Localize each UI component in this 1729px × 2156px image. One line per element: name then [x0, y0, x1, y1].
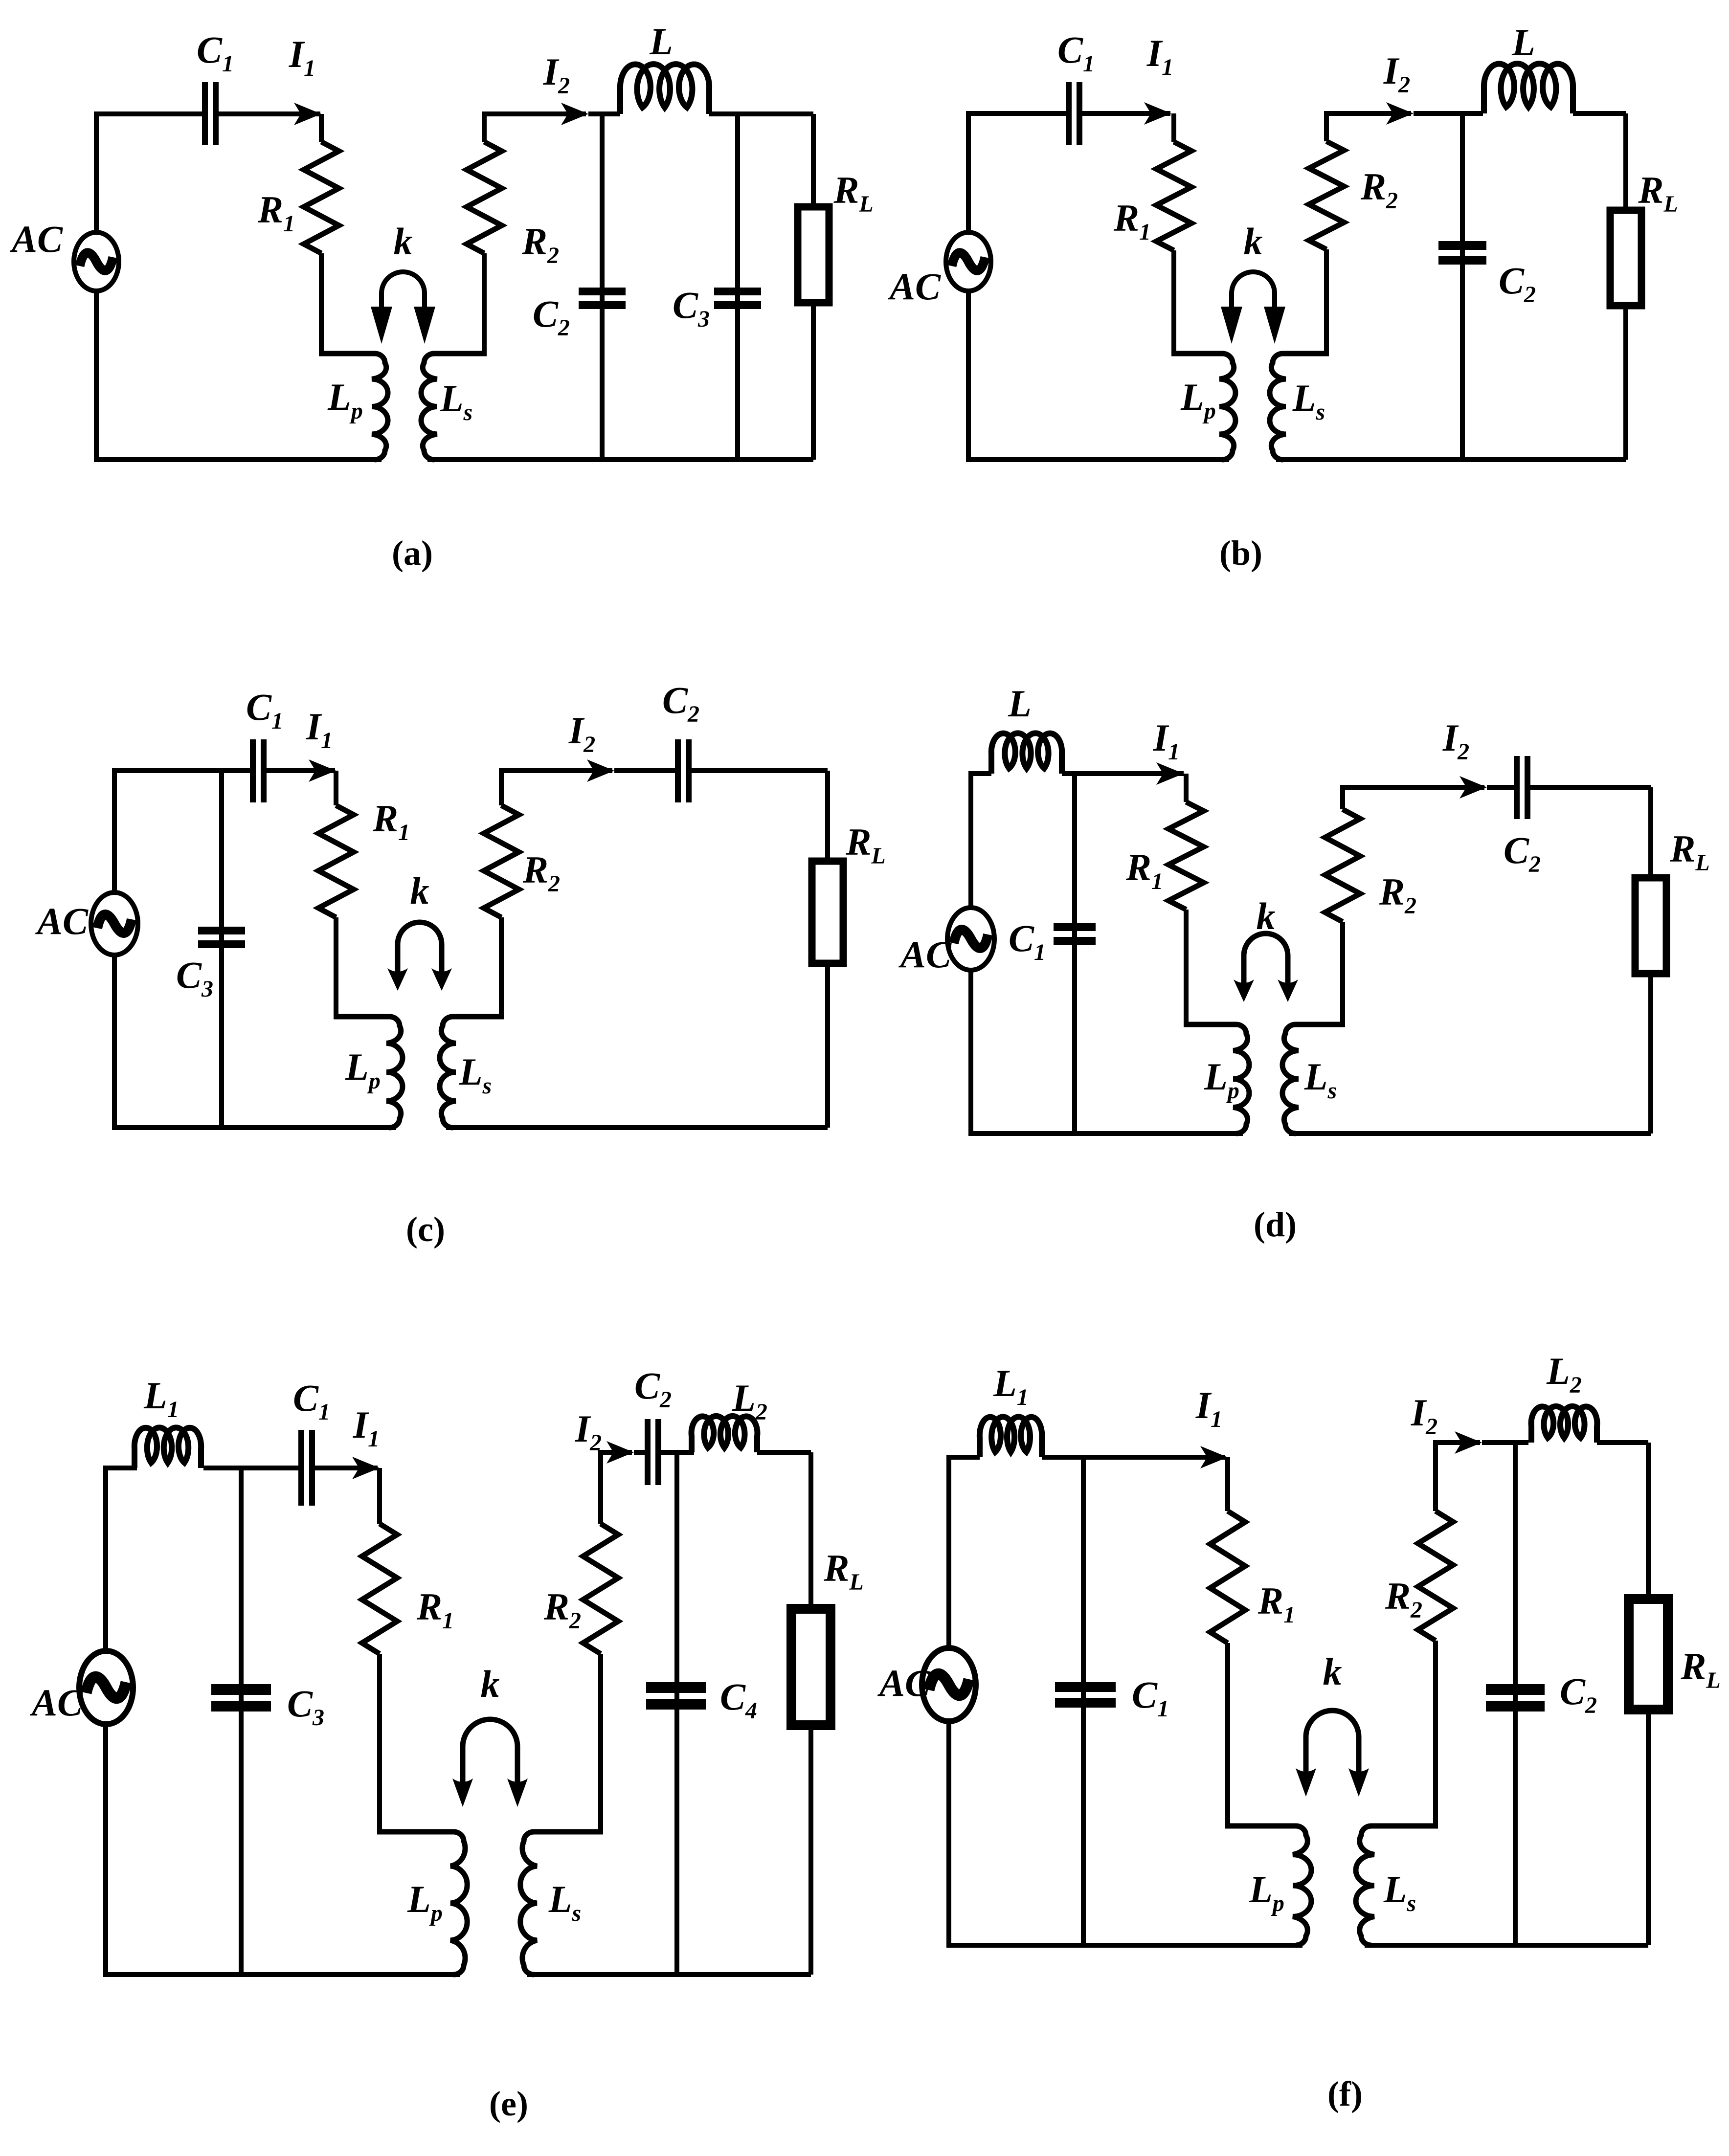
primary coil Lp (panel e) — [377, 1832, 467, 1975]
resistor R2 (panel b) — [1309, 141, 1344, 249]
svg-text:k: k — [1257, 895, 1276, 937]
inductor L2 (panel f) — [1531, 1406, 1597, 1443]
AC source (panel a) — [74, 232, 119, 291]
current arrow I1 (panel c) — [309, 759, 336, 782]
wire: corner to R1 (panel f) — [1225, 1457, 1230, 1511]
coupling k arc with arrows (panel a) — [371, 272, 435, 344]
current arrow I2 (panel b) — [1386, 102, 1414, 125]
capacitor C1 (panel b) — [1066, 82, 1082, 145]
wire: C1 branch (panel f) — [1081, 1457, 1086, 1945]
resistor R1 (panel a) — [304, 142, 339, 253]
wire: right edge to RL (panel f) — [1646, 1443, 1651, 1602]
wire: R1 to Lp (panel c) — [334, 917, 338, 1017]
wire: L2 to top-right corner (panel e) — [757, 1450, 811, 1455]
wire: Ls bottom to bottom-right (panel a) — [427, 457, 813, 462]
inductor L (panel d) — [991, 733, 1062, 774]
wire: R2 top to I2 arrow (panel a) — [484, 114, 586, 142]
inductor L1 (panel f) — [980, 1417, 1042, 1457]
wire: C3 branch (panel c) — [219, 771, 224, 1128]
wire: Ls top to R2 (panel e) — [598, 1654, 603, 1832]
wire: C3 branch (panel a) — [735, 114, 740, 460]
wire: C1 to I1 arrow (panel b) — [1082, 111, 1170, 116]
wire: I2 arrow to L2 (panel f) — [1482, 1440, 1528, 1445]
wire: panel b, left branch AC to top — [968, 113, 1066, 232]
primary coil Lp (panel a) — [319, 354, 388, 460]
wire: panel c, left branch AC to top — [114, 771, 250, 895]
wire: C1 to I1 arrow (panel e) — [315, 1466, 378, 1470]
capacitor C1 (panel c) — [250, 739, 267, 802]
wire: R1 to Lp top wire (panel a) — [319, 253, 324, 354]
wire: R1 to Lp (panel f) — [1225, 1643, 1230, 1826]
svg-text:AC: AC — [29, 1681, 83, 1724]
load resistor RL (panel f) — [1629, 1599, 1668, 1710]
wire: L coil to top-right corner (panel a) — [709, 111, 813, 116]
wire: L coil to top-right corner (panel b) — [1573, 111, 1626, 116]
wire: arrow corner down to R1 (panel a) — [319, 114, 324, 142]
AC source (panel b) — [946, 232, 991, 291]
current arrow I1 (panel b) — [1144, 102, 1171, 125]
AC source (panel e) — [79, 1651, 133, 1724]
wire: corner down to R1 (panel b) — [1171, 113, 1176, 142]
wire: Ls top to R2 (panel b) — [1324, 249, 1329, 354]
svg-text:k: k — [410, 869, 429, 912]
wire: panel a, left branch from AC to top — [96, 114, 202, 232]
secondary coil Ls (panel e) — [520, 1832, 603, 1975]
wire: RL to bottom-right (panel d) — [1648, 970, 1653, 1134]
wire: C2 branch (panel a) — [600, 114, 605, 460]
wire: panel d, AC bottom to bottom-left — [971, 967, 1243, 1134]
capacitor C3 (panel a) — [714, 288, 761, 309]
svg-text:(a): (a) — [392, 533, 433, 573]
wire: R2 to I2 wire (panel c) — [501, 771, 612, 805]
wire: corner to R1 (panel d) — [1184, 774, 1189, 802]
wire: I2 arrow to L coil (panel a) — [588, 111, 620, 116]
wire: panel e, AC bottom to bottom-left — [106, 1723, 460, 1975]
wire: panel f, AC bottom to bottom-left — [949, 1720, 1302, 1945]
coupling k arc with arrows (panel b) — [1221, 272, 1285, 344]
secondary coil Ls (panel b) — [1270, 354, 1329, 460]
current arrow I1 (panel f) — [1200, 1446, 1228, 1468]
svg-text:k: k — [481, 1663, 500, 1705]
wire: right edge to RL (panel c) — [825, 771, 830, 865]
wire: RL to bottom-right corner (panel a) — [811, 299, 816, 460]
wire: RL to bottom-right (panel f) — [1646, 1705, 1651, 1945]
svg-text:AC: AC — [887, 265, 941, 308]
svg-text:k: k — [1323, 1650, 1342, 1693]
capacitor C2 (panel e) — [645, 1419, 661, 1485]
capacitor C2 (panel a) — [579, 288, 626, 309]
capacitor C3 (panel c) — [198, 927, 245, 948]
resistor R2 (panel d) — [1325, 809, 1360, 922]
svg-text:(c): (c) — [406, 1210, 445, 1249]
primary coil Lp (panel d) — [1184, 1024, 1249, 1134]
wire: I2 arrow to C2 (panel c) — [614, 768, 675, 773]
inductor L (panel a) — [620, 64, 709, 114]
resistor R2 (panel f) — [1418, 1511, 1453, 1641]
wire: panel c, AC bottom to bottom-left — [114, 951, 396, 1128]
inductor L2 (panel e) — [692, 1416, 758, 1452]
svg-text:(d): (d) — [1254, 1205, 1297, 1244]
svg-text:L: L — [1008, 682, 1032, 725]
wire: R2 to I2 wire (panel d) — [1343, 787, 1484, 809]
wire: C2 to L2 (panel e) — [661, 1450, 694, 1455]
wire: right edge to RL (panel e) — [808, 1452, 813, 1612]
wire: Ls top to R2 (panel d) — [1340, 922, 1345, 1024]
wire: Ls bottom to bottom-right (panel d) — [1289, 1131, 1651, 1136]
secondary coil Ls (panel a) — [421, 354, 487, 460]
load resistor RL (panel b) — [1610, 210, 1641, 306]
resistor R1 (panel c) — [318, 805, 354, 917]
wire: R2 to I2 wire (panel e) — [601, 1452, 632, 1524]
current arrow I1 (panel a) — [294, 103, 321, 125]
svg-text:AC: AC — [898, 933, 952, 976]
svg-text:L: L — [1511, 21, 1535, 64]
wire: right edge to RL (panel d) — [1648, 787, 1653, 881]
current arrow I2 (panel c) — [587, 759, 614, 782]
capacitor C4 (panel e) — [646, 1682, 706, 1710]
load resistor RL (panel e) — [791, 1609, 831, 1725]
wire: R2 to I2 wire (panel f) — [1436, 1443, 1480, 1511]
secondary coil Ls (panel c) — [440, 1017, 504, 1128]
capacitor C2 (panel d) — [1514, 756, 1530, 819]
load resistor RL (panel c) — [812, 861, 843, 963]
capacitor C1 (panel a) — [202, 82, 219, 145]
resistor R1 (panel b) — [1156, 142, 1191, 250]
load resistor RL (panel a) — [798, 207, 829, 303]
secondary coil Ls (panel f) — [1356, 1826, 1438, 1945]
resistor R1 (panel d) — [1168, 802, 1204, 910]
inductor L (panel b) — [1484, 64, 1573, 113]
current arrow I2 (panel a) — [561, 103, 588, 125]
capacitor C3 (panel e) — [211, 1684, 271, 1711]
wire: corner to R1 (panel e) — [377, 1468, 382, 1524]
wire: panel a, AC bottom to bottom-left corner — [96, 291, 382, 460]
wire: Ls top to R2 (panel f) — [1433, 1641, 1438, 1826]
wire: I2 arrow to C2 node (panel b) — [1414, 111, 1483, 116]
wire: I2 arrow to C2 (panel d) — [1487, 785, 1514, 790]
capacitor C2 (panel f) — [1486, 1684, 1545, 1711]
wire: Ls bottom to bottom-right (panel c) — [446, 1125, 828, 1130]
resistor R2 (panel a) — [467, 142, 502, 253]
resistor R1 (panel f) — [1210, 1511, 1245, 1643]
wire: panel b, AC bottom to bottom-left — [968, 291, 1229, 460]
resistor R1 (panel e) — [362, 1524, 397, 1654]
current arrow I2 (panel f) — [1455, 1431, 1482, 1454]
primary coil Lp (panel f) — [1225, 1826, 1311, 1945]
coupling k arc with arrows (panel e) — [452, 1719, 528, 1807]
capacitor C2 (panel b) — [1438, 241, 1486, 265]
wire: panel e, left branch AC to top — [106, 1468, 137, 1653]
wire: Ls top to R2 (panel a) — [482, 253, 487, 354]
secondary coil Ls (panel d) — [1282, 1024, 1345, 1134]
primary coil Lp (panel b) — [1171, 354, 1235, 460]
wire: L1 to C1 node (panel f) — [1042, 1455, 1225, 1460]
wire: RL to bottom-right (panel b) — [1623, 302, 1628, 460]
wire: panel d, left branch AC to top — [971, 774, 991, 911]
current arrow I1 (panel e) — [352, 1457, 380, 1479]
AC source (panel d) — [947, 908, 994, 970]
svg-text:(f): (f) — [1327, 2074, 1363, 2113]
wire: C2 to top-right corner (panel c) — [692, 768, 828, 773]
inductor L1 (panel e) — [135, 1427, 201, 1468]
wire: Ls bottom to bottom-right (panel f) — [1365, 1943, 1648, 1948]
svg-text:(b): (b) — [1219, 533, 1262, 573]
wire: I2 arrow to C2 (panel e) — [634, 1450, 645, 1455]
capacitor C1 (panel e) — [298, 1430, 315, 1506]
wire: right edge to RL (panel b) — [1623, 113, 1628, 214]
svg-text:L: L — [649, 20, 673, 63]
resistor R2 (panel e) — [583, 1524, 618, 1654]
wire: R1 to Lp (panel d) — [1184, 910, 1189, 1024]
coupling k arc with arrows (panel d) — [1234, 934, 1298, 1002]
resistor R2 (panel c) — [484, 805, 519, 917]
svg-text:k: k — [394, 220, 413, 263]
AC source (panel c) — [91, 892, 138, 955]
wire: C3 branch (panel e) — [239, 1468, 244, 1975]
svg-text:AC: AC — [877, 1662, 931, 1704]
coupling k arc with arrows (panel f) — [1296, 1711, 1369, 1797]
wire: R1 to Lp (panel e) — [377, 1654, 382, 1832]
load resistor RL (panel d) — [1635, 878, 1666, 974]
capacitor C1 (panel f) — [1055, 1682, 1116, 1708]
current arrow I2 (panel d) — [1460, 776, 1487, 799]
wire: Ls bottom to bottom-right (panel b) — [1276, 457, 1626, 462]
wire: C2 branch (panel f) — [1513, 1443, 1518, 1945]
capacitor C1 (panel d) — [1054, 923, 1096, 945]
wire: L1 to C3 node (panel e) — [203, 1466, 298, 1470]
wire: C4 branch (panel e) — [674, 1452, 679, 1975]
wire: panel f, left branch AC to top — [949, 1457, 980, 1649]
svg-text:k: k — [1244, 220, 1263, 263]
wire: C1 to I1 arrow (panel c) — [267, 768, 335, 773]
wire: R2 to I2 arrow (panel b) — [1326, 113, 1411, 141]
wire: Ls top to R2 (panel c) — [499, 917, 504, 1017]
wire: RL to bottom-right (panel e) — [808, 1721, 813, 1975]
coupling k arc with arrows (panel c) — [387, 922, 452, 991]
current arrow I2 (panel e) — [606, 1441, 634, 1464]
wire: R1 to Lp (panel b) — [1171, 250, 1176, 354]
wire: C1 to R1 with I1 arrow (panel a) — [219, 111, 320, 116]
primary coil Lp (panel c) — [334, 1017, 403, 1128]
AC source (panel f) — [922, 1648, 976, 1721]
wire: corner to R1 (panel c) — [334, 771, 338, 805]
wire: right edge down to RL (panel a) — [811, 114, 816, 210]
wire: L to C1 node (panel d) — [1062, 771, 1184, 776]
wire: Ls bottom to bottom-right (panel e) — [527, 1972, 811, 1977]
svg-text:AC: AC — [9, 218, 63, 260]
wire: C2 branch (panel b) — [1460, 113, 1465, 460]
wire: RL to bottom-right (panel c) — [825, 960, 830, 1128]
wire: L2 to top-right corner (panel f) — [1597, 1440, 1648, 1445]
svg-text:(e): (e) — [489, 2084, 528, 2123]
wire: C1 branch (panel d) — [1072, 774, 1077, 1134]
capacitor C2 (panel c) — [675, 739, 692, 802]
current arrow I1 (panel d) — [1156, 762, 1184, 785]
svg-text:AC: AC — [35, 900, 89, 942]
wire: C2 to top-right corner (panel d) — [1530, 785, 1651, 790]
